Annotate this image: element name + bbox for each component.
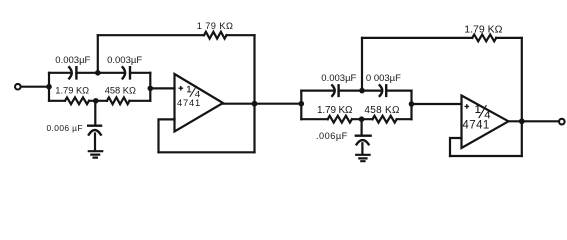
svg-text:458 KΩ: 458 KΩ [364,105,400,116]
resistor R2 458K [107,97,130,104]
wire feedback right vertical stage1 (top to U-loop bottom) [253,35,255,152]
svg-text:1.79 KΩ: 1.79 KΩ [55,86,89,96]
node D2 junction dot [359,116,365,122]
wire U-loop bottom stage1 [159,151,255,153]
node C junction dot [148,86,154,92]
wire left edge of stage1 RC network [48,73,50,101]
svg-text:458 KΩ: 458 KΩ [105,86,136,96]
node B2 junction dot (cap midpoint stage2) [359,88,365,94]
wire cap row stage2 [301,89,411,91]
wire U1a output [222,103,301,105]
op-amp U1a triangle [175,74,224,132]
wire node C2 to op-amp U1b input [412,103,462,105]
ground symbol stage2 [356,155,369,161]
node A junction dot [46,84,52,90]
svg-text:0.006 µF: 0.006 µF [47,123,83,133]
svg-text:4741: 4741 [462,120,489,132]
capacitor C2 0.003uF [123,67,130,78]
node D junction dot (resistor midpoint) [93,98,99,104]
node C2 junction dot [409,101,415,107]
wire feedback riser from node B2 up [361,38,363,91]
capacitor C5 0.003uF [380,85,387,96]
wire input to node A [21,86,49,88]
wire right edge of stage1 RC network [149,73,151,101]
wire U1b output [508,120,560,122]
op-amp U1b triangle [462,96,509,149]
wire right edge of stage2 RC network [410,91,412,120]
wire resistor row stage2 left [301,118,327,120]
wire feedback riser from node B up [97,35,99,73]
wire feedback right vertical stage2 (top to U-loop bottom) [521,38,523,156]
wire cap row stage1 [49,72,150,74]
node U1a output junction dot [252,101,258,107]
wire U1b noninverting input to U-loop [450,138,462,156]
svg-text:0.003µF: 0.003µF [55,55,90,66]
ground symbol stage1 [89,151,102,157]
wire U-loop bottom stage2 [450,155,522,157]
op-amp U1b input polarity mark [465,105,468,108]
node U1b output junction dot [519,118,525,124]
wire R1 to node D [89,100,107,102]
resistor R5 458K [373,116,397,123]
capacitor C1 0.003uF [69,67,76,78]
wire C3 to ground [94,134,96,151]
svg-text:1.79 KΩ: 1.79 KΩ [464,23,502,35]
resistor R3 feedback 1.79K [204,32,227,39]
wire node D2 down to C6 [361,119,363,134]
wire R2 to right edge [130,100,151,102]
svg-text:1 79 KΩ: 1 79 KΩ [197,21,234,31]
wire resistor row stage1 left [49,100,65,102]
svg-text:4741: 4741 [177,97,201,108]
capacitor C3 0.006uF [88,126,101,135]
wire node D down to C3 [94,101,96,125]
capacitor C4 0.003uF [332,85,338,96]
resistor R6 feedback 1.79K [472,35,496,42]
svg-text:0.003µF: 0.003µF [321,73,356,84]
output terminal J2 [559,119,565,125]
wire feedback top line stage2 right [496,37,522,39]
input terminal J1 [15,84,21,90]
wire C6 to ground [361,143,363,154]
svg-text:.006µF: .006µF [316,131,348,141]
node B junction dot (cap midpoint) [95,70,101,76]
resistor R1 1.79K [65,97,89,104]
resistor R4 1.79K [328,116,352,123]
op-amp U1a input polarity mark [179,87,182,90]
wire left edge of stage2 RC network [300,91,302,120]
svg-text:1.79 KΩ: 1.79 KΩ [317,105,353,116]
wire feedback top line stage1 left [98,34,204,36]
capacitor C6 .006uF [356,136,371,145]
wire R4 to node D2 [352,118,373,120]
wire node C to op-amp U1a input [150,87,174,89]
wire U1a noninverting input to U-loop [159,119,175,152]
svg-text:0.003µF: 0.003µF [107,55,142,66]
wire R5 to right edge [397,118,412,120]
wire feedback top line stage2 left [362,37,472,39]
node A2 junction dot (stage2 input) [299,101,305,107]
wire feedback top line stage1 right [227,34,255,36]
svg-text:0 003µF: 0 003µF [366,73,401,84]
